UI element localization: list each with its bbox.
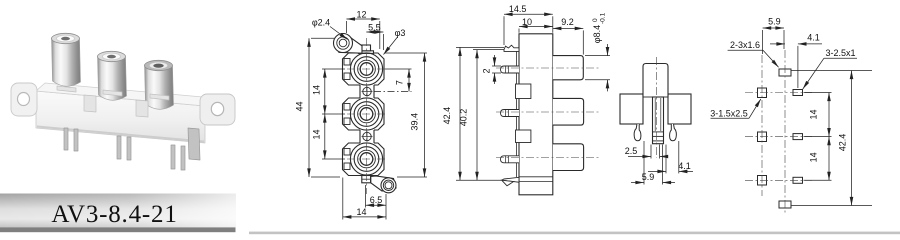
photo right mounting ear xyxy=(200,94,235,125)
leader 3-2.5x1 xyxy=(803,58,857,89)
footprint centerlines xyxy=(745,50,812,214)
front small circle 2 xyxy=(362,131,373,142)
view1 dim texts xyxy=(295,9,420,217)
svg-text:42.4: 42.4 xyxy=(442,107,452,125)
dim 10 xyxy=(519,27,553,33)
dim 9.2 xyxy=(553,28,584,54)
front jack circles middle xyxy=(350,98,382,130)
leader 3-1.5x2.5 xyxy=(711,99,761,118)
front bottom-right ear xyxy=(381,178,396,193)
side pin 2 xyxy=(501,110,520,117)
svg-text:0: 0 xyxy=(592,18,599,22)
pads middle 2.5x1 xyxy=(793,90,803,96)
svg-text:φ8.4: φ8.4 xyxy=(592,25,602,43)
leader 2-3x1.6 xyxy=(728,50,779,67)
side pin 3 xyxy=(501,156,520,163)
side top hook xyxy=(504,45,519,51)
front small circle 1 xyxy=(362,86,373,97)
svg-text:5.9: 5.9 xyxy=(642,172,655,182)
end top block xyxy=(643,64,668,98)
front bottom tab xyxy=(362,176,371,183)
dim 6.5 bottom xyxy=(366,185,387,208)
end left hook pin xyxy=(634,124,641,141)
dim 14 14 right xyxy=(804,93,832,181)
front jack circles top xyxy=(350,53,382,85)
photo left mounting ear xyxy=(11,83,37,116)
dim 42.4 xyxy=(456,47,504,180)
photo pcb pins xyxy=(64,128,200,170)
leader phi3 xyxy=(384,37,398,55)
svg-text:14: 14 xyxy=(356,207,366,217)
dim 5.9 top xyxy=(763,28,784,54)
dim phi8.4 xyxy=(585,44,610,91)
view4 dimensions xyxy=(711,28,873,206)
dim 4.1 xyxy=(648,141,693,173)
svg-text:5.5: 5.5 xyxy=(368,22,381,32)
front left edge notches xyxy=(344,59,350,170)
title gradient bar xyxy=(0,194,236,228)
side centerlines xyxy=(496,68,600,158)
svg-text:AV3-8.4-21: AV3-8.4-21 xyxy=(51,201,177,228)
svg-text:40.2: 40.2 xyxy=(459,109,469,127)
svg-text:3-1.5x2.5: 3-1.5x2.5 xyxy=(710,109,748,119)
end left block xyxy=(620,94,643,124)
side barrel bottom xyxy=(553,144,584,171)
title underline dark xyxy=(0,227,236,232)
end center column xyxy=(643,97,668,144)
photo jack 1 barrel xyxy=(52,38,81,86)
svg-text:4.1: 4.1 xyxy=(807,33,820,43)
svg-text:-0.1: -0.1 xyxy=(600,12,607,24)
front body boss bottom xyxy=(343,143,385,176)
svg-text:5.9: 5.9 xyxy=(768,17,781,27)
front top tab xyxy=(359,45,374,53)
leader phi2.4 xyxy=(330,27,348,40)
bottom right rule xyxy=(249,232,900,235)
front jack circles bottom xyxy=(350,143,382,175)
end right block xyxy=(668,94,691,124)
side body xyxy=(519,34,553,195)
front centerlines xyxy=(347,38,386,194)
view3 dim texts xyxy=(625,146,691,182)
svg-text:14: 14 xyxy=(808,109,818,119)
photo body front face xyxy=(36,91,205,143)
svg-text:44: 44 xyxy=(295,101,305,111)
photo body detail bumps xyxy=(57,86,169,117)
dim 39.4 right xyxy=(385,53,427,177)
dim 42.4 right xyxy=(792,71,873,206)
svg-text:6.5: 6.5 xyxy=(370,195,383,205)
view2 dimensions xyxy=(456,14,610,180)
pad top 3x1.6 xyxy=(779,69,791,76)
dim 5.9 xyxy=(631,141,675,185)
svg-text:4.1: 4.1 xyxy=(678,161,691,171)
svg-text:10: 10 xyxy=(522,17,532,27)
dim 14.5 xyxy=(504,14,553,45)
dim 5.5 xyxy=(366,32,383,50)
svg-text:42.4: 42.4 xyxy=(838,134,848,152)
view3 dimensions xyxy=(628,141,693,185)
side barrel middle xyxy=(553,98,584,125)
view1 dimensions xyxy=(309,19,427,220)
side shield tab 1 xyxy=(516,84,531,99)
svg-text:39.4: 39.4 xyxy=(410,113,420,131)
end centerline xyxy=(656,57,658,158)
front neck 2 xyxy=(360,129,374,144)
svg-text:12: 12 xyxy=(356,9,366,19)
svg-text:14: 14 xyxy=(312,85,322,95)
front neck 1 xyxy=(360,84,374,99)
dim 40.2 xyxy=(456,50,504,181)
side body steps xyxy=(517,51,553,182)
svg-text:2.5: 2.5 xyxy=(625,146,638,156)
svg-text:2-3x1.6: 2-3x1.6 xyxy=(730,40,760,50)
front body boss top (octagon) xyxy=(343,53,385,85)
pads left 1.5x2.5 xyxy=(758,88,767,98)
dim 2.5 xyxy=(628,145,668,159)
photo jack 3 barrel xyxy=(145,65,174,109)
svg-text:14: 14 xyxy=(808,152,818,162)
dim 14 14 left xyxy=(322,69,345,159)
svg-text:φ3: φ3 xyxy=(395,28,406,38)
front top-left ear arm xyxy=(339,34,362,53)
photo body top face xyxy=(36,83,214,106)
side barrel top xyxy=(553,56,584,80)
svg-text:14.5: 14.5 xyxy=(509,4,527,14)
end right hook pin xyxy=(670,124,677,141)
dim 2 pin xyxy=(492,55,501,84)
side shield tab 2 xyxy=(516,130,531,143)
front bottom-right ear arm xyxy=(371,176,396,191)
svg-text:7: 7 xyxy=(395,80,405,85)
front body boss middle xyxy=(343,98,385,130)
dim 44 left xyxy=(309,38,340,177)
svg-text:14: 14 xyxy=(312,129,322,139)
photo jack 2 barrel xyxy=(98,56,127,100)
svg-text:9.2: 9.2 xyxy=(561,17,574,27)
view2 dim texts xyxy=(442,4,607,126)
dim 14 bottom xyxy=(343,178,386,220)
svg-text:2: 2 xyxy=(482,68,492,73)
side pin 1 xyxy=(501,66,520,73)
view4 dim texts xyxy=(710,17,855,163)
pad bottom 3x1.6 xyxy=(779,201,791,208)
dim 7 right xyxy=(374,69,412,92)
front top-left ear xyxy=(334,34,353,53)
dim 12 top xyxy=(346,19,379,49)
svg-text:φ2.4: φ2.4 xyxy=(312,18,330,28)
svg-text:3-2.5x1: 3-2.5x1 xyxy=(825,48,855,58)
dim 4.1 top xyxy=(770,44,822,88)
side bottom foot xyxy=(502,177,519,186)
